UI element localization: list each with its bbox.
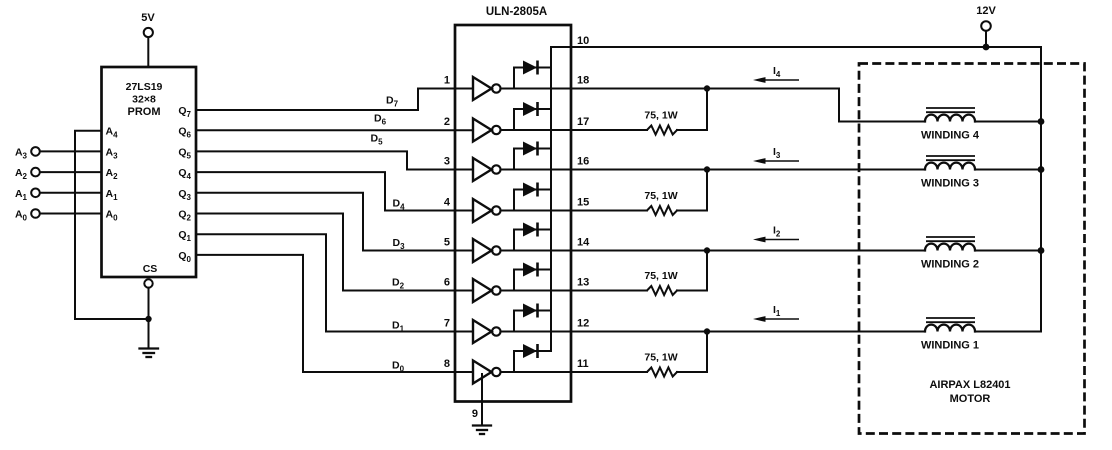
node 12V junction xyxy=(983,44,990,51)
resistor 75 ohm 1W (channel 6) xyxy=(644,270,677,295)
input terminal A0 xyxy=(15,209,40,223)
svg-text:I3: I3 xyxy=(773,146,781,160)
wire Q7 to ULN pin 1 xyxy=(196,89,473,111)
ground (PROM CS) xyxy=(140,349,159,358)
svg-text:11: 11 xyxy=(577,358,589,370)
svg-text:7: 7 xyxy=(444,318,450,330)
svg-text:A2: A2 xyxy=(15,167,28,181)
node junction resistor/pin 14 xyxy=(704,247,710,253)
svg-text:D0: D0 xyxy=(392,360,405,374)
wire A0 to PROM xyxy=(40,213,102,215)
wire winding 4 to 12V rail xyxy=(975,121,1041,123)
current arrow I2 xyxy=(753,225,799,243)
inverter/darlington channel 8 xyxy=(473,361,500,384)
PROM U1 27LS19 32x8 xyxy=(102,67,197,277)
svg-text:ULN-2805A: ULN-2805A xyxy=(486,6,547,18)
input terminal A2 xyxy=(15,167,40,181)
wire 12V to rail xyxy=(985,31,987,47)
wire Q2 to ULN pin 6 xyxy=(196,214,473,291)
svg-text:75, 1W: 75, 1W xyxy=(644,270,677,282)
svg-text:A0: A0 xyxy=(15,209,28,223)
wire A1 to PROM xyxy=(40,192,102,194)
wire pin 9 to ground xyxy=(481,374,483,426)
node CS/A4 junction xyxy=(145,316,151,322)
svg-text:18: 18 xyxy=(577,75,589,87)
diode channel 7 xyxy=(514,304,551,332)
svg-text:13: 13 xyxy=(577,277,589,289)
wire resistor to junction xyxy=(677,170,707,211)
current arrow I1 xyxy=(753,304,799,322)
svg-text:WINDING 1: WINDING 1 xyxy=(921,340,979,352)
svg-text:9: 9 xyxy=(472,408,478,420)
wire resistor to junction xyxy=(677,332,707,373)
diode channel 4 xyxy=(514,183,551,211)
node junction resistor/pin 18 xyxy=(704,85,710,91)
node winding 2 rail junction xyxy=(1038,247,1045,254)
svg-text:4: 4 xyxy=(444,197,451,209)
wire A4 tie-down to CS node xyxy=(75,131,149,319)
winding 3 (motor coil L3) xyxy=(921,156,979,190)
svg-text:PROM: PROM xyxy=(128,106,161,118)
svg-text:MOTOR: MOTOR xyxy=(950,393,991,405)
resistor 75 ohm 1W (channel 8) xyxy=(644,352,677,377)
svg-text:D6: D6 xyxy=(374,113,387,127)
diode channel 6 xyxy=(514,263,551,291)
wire ULN pin 12 to winding 1 xyxy=(501,331,926,333)
svg-text:Q5: Q5 xyxy=(178,146,191,160)
wire resistor to junction xyxy=(677,89,707,131)
5V supply terminal xyxy=(141,12,155,37)
wire CS to ground xyxy=(148,288,150,348)
svg-text:I1: I1 xyxy=(773,304,781,318)
12V supply terminal xyxy=(976,5,996,31)
svg-text:5: 5 xyxy=(444,237,450,249)
wire Q6 to ULN pin 2 xyxy=(196,129,473,131)
current arrow I4 xyxy=(753,65,799,83)
svg-text:5V: 5V xyxy=(141,12,155,24)
svg-text:WINDING 2: WINDING 2 xyxy=(921,259,979,271)
svg-text:1: 1 xyxy=(444,75,450,87)
diode channel 5 xyxy=(514,223,551,251)
ground (ULN pin 9) xyxy=(473,426,491,435)
diode channel 1 xyxy=(514,61,551,89)
wire A2 to PROM xyxy=(40,171,102,173)
motor enclosure AIRPAX L82401 (dashed) xyxy=(859,64,1085,434)
svg-text:12: 12 xyxy=(577,318,589,330)
svg-text:A4: A4 xyxy=(106,126,119,140)
input terminal A1 xyxy=(15,188,40,202)
diode common rail xyxy=(550,47,552,351)
svg-text:2: 2 xyxy=(444,116,450,128)
svg-text:Q6: Q6 xyxy=(178,126,191,140)
svg-text:CS: CS xyxy=(143,263,158,275)
wire winding 3 to 12V rail xyxy=(975,169,1041,171)
wire resistor to junction xyxy=(677,251,707,291)
driver U2 ULN-2805A box xyxy=(455,6,571,402)
svg-text:3: 3 xyxy=(444,156,450,168)
wire ULN pin 16 to winding 3 xyxy=(501,169,926,171)
resistor 75 ohm 1W (channel 2) xyxy=(644,110,677,135)
svg-text:16: 16 xyxy=(577,156,589,168)
svg-text:17: 17 xyxy=(577,116,589,128)
current arrow I3 xyxy=(753,146,799,164)
wire ULN pin 11 to resistor xyxy=(501,371,648,373)
svg-text:WINDING 4: WINDING 4 xyxy=(921,130,980,142)
inverter/darlington channel 6 xyxy=(473,279,500,302)
wire A3 to PROM xyxy=(40,150,102,152)
inverter/darlington channel 1 xyxy=(473,77,500,100)
svg-text:27LS19: 27LS19 xyxy=(126,81,163,93)
wire ULN pin 13 to resistor xyxy=(501,290,648,292)
winding 1 (motor coil L1) xyxy=(921,318,979,352)
svg-text:Q0: Q0 xyxy=(178,250,191,264)
wire Q1 to ULN pin 7 xyxy=(196,234,473,331)
svg-text:D1: D1 xyxy=(392,320,405,334)
svg-text:Q2: Q2 xyxy=(178,209,191,223)
svg-text:D3: D3 xyxy=(392,237,405,251)
PROM pin CS with bubble xyxy=(143,263,158,288)
svg-text:14: 14 xyxy=(577,237,590,249)
svg-text:Q1: Q1 xyxy=(178,229,191,243)
svg-text:D7: D7 xyxy=(386,95,399,109)
inverter/darlington channel 3 xyxy=(473,158,500,181)
svg-text:D2: D2 xyxy=(392,277,405,291)
wire Q3 to ULN pin 5 xyxy=(196,193,473,251)
svg-text:75, 1W: 75, 1W xyxy=(644,110,677,122)
wire Q4 to ULN pin 4 xyxy=(196,172,473,210)
resistor 75 ohm 1W (channel 4) xyxy=(644,190,677,215)
diode channel 3 xyxy=(514,142,551,170)
svg-text:A1: A1 xyxy=(15,188,28,202)
wire Q5 to ULN pin 3 xyxy=(196,151,473,169)
node junction resistor/pin 16 xyxy=(704,166,710,172)
wire ULN pin 14 to winding 2 xyxy=(501,250,926,252)
node winding 4 rail junction xyxy=(1038,118,1045,125)
wire ULN pin 15 to resistor xyxy=(501,210,648,212)
svg-text:WINDING 3: WINDING 3 xyxy=(921,178,979,190)
wire ULN pin 18 to winding 4 xyxy=(501,89,926,122)
svg-text:I2: I2 xyxy=(773,225,781,239)
svg-text:A2: A2 xyxy=(106,167,119,181)
svg-text:AIRPAX L82401: AIRPAX L82401 xyxy=(929,379,1010,391)
wire pin 10 to 12V rail xyxy=(551,47,1041,332)
input terminal A3 xyxy=(15,146,40,160)
svg-text:I4: I4 xyxy=(773,65,781,79)
svg-text:8: 8 xyxy=(444,358,450,370)
node junction resistor/pin 12 xyxy=(704,328,710,334)
svg-text:75, 1W: 75, 1W xyxy=(644,190,677,202)
svg-text:A3: A3 xyxy=(106,146,119,160)
svg-text:6: 6 xyxy=(444,277,450,289)
diode channel 8 xyxy=(514,344,551,372)
svg-text:Q7: Q7 xyxy=(178,105,191,119)
inverter/darlington channel 4 xyxy=(473,199,500,222)
svg-text:A3: A3 xyxy=(15,146,28,160)
wire ULN pin 17 to resistor xyxy=(501,129,648,131)
inverter/darlington channel 5 xyxy=(473,239,500,262)
wire Q0 to ULN pin 8 xyxy=(196,255,473,372)
inverter/darlington channel 7 xyxy=(473,320,500,343)
svg-text:15: 15 xyxy=(577,197,589,209)
svg-text:10: 10 xyxy=(577,35,589,47)
inverter/darlington channel 2 xyxy=(473,119,500,142)
wire 5V to PROM xyxy=(147,37,149,67)
svg-text:Q3: Q3 xyxy=(178,188,191,202)
svg-text:75, 1W: 75, 1W xyxy=(644,352,677,364)
wire winding 2 to 12V rail xyxy=(975,250,1041,252)
svg-text:D4: D4 xyxy=(392,198,405,212)
svg-text:A0: A0 xyxy=(106,209,119,223)
svg-text:32×8: 32×8 xyxy=(132,94,156,106)
svg-text:Q4: Q4 xyxy=(178,167,191,181)
winding 2 (motor coil L2) xyxy=(921,237,979,271)
winding 4 (motor coil L4) xyxy=(921,108,980,142)
svg-text:A1: A1 xyxy=(106,188,119,202)
svg-text:D5: D5 xyxy=(370,133,383,147)
diode channel 2 xyxy=(514,102,551,130)
svg-text:12V: 12V xyxy=(976,5,996,17)
wire winding 1 to 12V rail xyxy=(975,331,1041,333)
node winding 3 rail junction xyxy=(1038,166,1045,173)
